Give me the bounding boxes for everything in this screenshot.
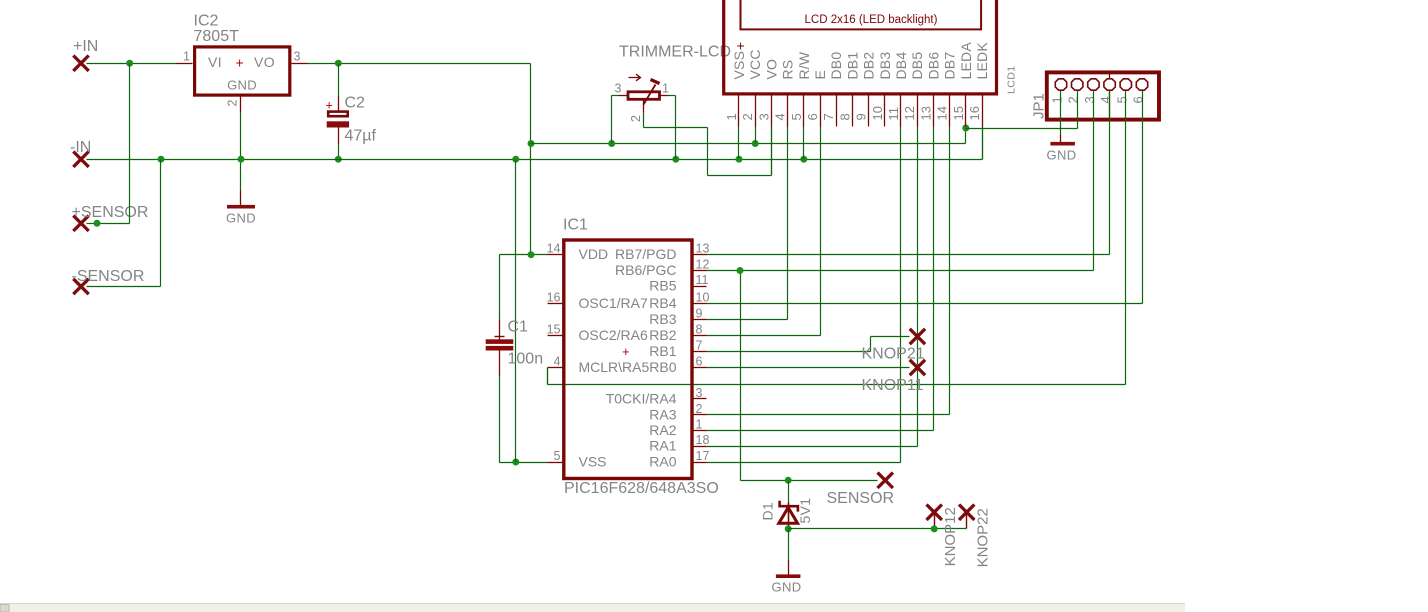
svg-text:TRIMMER-LCD: TRIMMER-LCD [619,44,731,61]
svg-text:5: 5 [554,449,561,463]
connector pad SENSOR [878,473,893,488]
svg-text:10: 10 [870,106,885,120]
svg-text:15: 15 [951,106,966,120]
svg-text:DB4: DB4 [893,52,909,80]
junction D1 bottom [785,525,792,532]
svg-text:KNOP11: KNOP11 [862,377,924,394]
IC1 pin 6 RB0 [693,367,707,369]
LCD pin 8 DB1 [852,96,854,127]
IC1 pin 7 RB1 [693,351,707,353]
LCD pin 10 DB3 [884,96,886,127]
connector pad KNOP22 [959,505,974,520]
svg-text:RB0: RB0 [649,359,676,375]
svg-text:1: 1 [662,82,669,96]
connector pad -SENSOR [73,279,88,294]
svg-text:2: 2 [629,115,643,122]
svg-text:3: 3 [756,113,771,120]
IC1 pin 5 VSS [548,462,564,464]
junction VDD riser [528,251,535,258]
wire LCD VCC to +5V rail [755,127,757,144]
svg-text:2: 2 [740,113,755,120]
svg-text:DB1: DB1 [844,52,860,80]
junction RB6 row [737,267,744,274]
svg-text:+: + [622,344,630,359]
wire LCD VSS to GND rail [738,127,740,160]
LCD pin 9 DB2 [868,96,870,127]
LCD pin 13 DB6 [933,96,935,127]
LCD pin 7 DB0 [836,96,838,127]
svg-text:1: 1 [696,418,703,432]
svg-text:LCD 2x16 (LED backlight): LCD 2x16 (LED backlight) [805,14,938,26]
IC1 pin 9 RB3 [693,319,707,321]
junction trimmer pin3 [608,140,615,147]
wire +5V riser x531 [530,64,532,255]
svg-text:SENSOR: SENSOR [827,490,895,507]
wire D1 to ground [788,529,790,561]
wire JP1 pin6 to RB4 [1142,122,1144,304]
svg-text:DB2: DB2 [861,52,877,80]
LCD pin 16 LEDK [982,96,984,127]
junction -SENSOR riser [158,156,165,163]
svg-text:4: 4 [773,113,788,120]
svg-text:DB7: DB7 [942,52,958,80]
svg-text:6: 6 [805,113,820,120]
ground GND under IC2 [227,205,255,209]
wire LCD DB4 to RA0 [900,127,902,463]
svg-text:2: 2 [696,402,703,416]
svg-text:7: 7 [821,113,836,120]
wire trimmer pin1 to GND [660,95,669,97]
scrollbar band [0,604,1185,612]
trimmer R TRIMMER-LCD body [628,92,660,100]
svg-text:KNOP12: KNOP12 [942,507,959,566]
connector JP1 outline [1047,72,1159,119]
IC U1 PIC16F628 outline [564,240,692,479]
JP1 pin1 to ground [1060,91,1062,135]
LCD pin 12 DB5 [917,96,919,127]
wire LCD VO down [771,127,773,176]
svg-text:R/W: R/W [796,51,812,79]
wire LEDA node to JP1 pin2 [966,128,1078,130]
svg-text:RA0: RA0 [649,454,676,470]
svg-text:2: 2 [226,100,240,107]
svg-text:T0CKI/RA4: T0CKI/RA4 [606,391,677,407]
svg-text:13: 13 [696,242,710,256]
svg-text:GND: GND [772,580,802,595]
svg-text:12: 12 [902,106,917,120]
JP1 pad 6 [1136,79,1147,90]
svg-text:+IN: +IN [73,38,98,55]
connector pad +IN [73,56,88,71]
zener diode D1 5V1 [788,481,790,503]
wire JP1 pin3 to RB6 [1093,122,1095,271]
wire -SENSOR [87,286,161,288]
svg-text:16: 16 [547,291,561,305]
svg-text:JP1: JP1 [1031,93,1048,119]
svg-text:4: 4 [1098,96,1113,103]
svg-text:-IN: -IN [70,139,91,156]
wire JP1 pin5 to MCLR [1125,122,1127,385]
ground GND under D1 [776,574,801,578]
svg-text:3: 3 [294,50,301,64]
LCD pin 1 VSS [738,96,740,127]
LCD pin 2 VCC [755,96,757,127]
junction LEDA/JP1-2 [962,125,969,132]
IC1 pin 2 RA3 [693,414,707,416]
svg-text:IC2: IC2 [194,12,219,29]
junction LCD VSS [736,156,743,163]
junction VSS gnd riser [512,459,519,466]
ground GND at JP1 [1050,142,1075,146]
IC1 pin 10 RB4 [693,303,707,305]
svg-text:11: 11 [696,273,709,287]
svg-text:RS: RS [780,60,796,80]
wire LCD DB7 to RA3 [949,127,951,415]
svg-text:RA3: RA3 [649,407,676,423]
svg-text:RB3: RB3 [649,311,676,327]
LCD pin 11 DB4 [900,96,902,127]
svg-text:VO: VO [763,59,779,80]
IC1 pin 4 MCLR\RA5 [548,367,564,369]
svg-text:RB7/PGD: RB7/PGD [615,246,676,262]
junction IC2 gnd [238,156,245,163]
svg-text:14: 14 [547,242,561,256]
svg-text:9: 9 [696,307,703,321]
wire D1 to KNOP12/KNOP22 [789,528,967,530]
wire RB0 to KNOP11 [707,367,910,369]
LCD pin 15 LEDA [965,96,967,127]
connector pad -IN [73,152,88,167]
wire LCD R/W to GND rail [803,127,805,160]
svg-text:18: 18 [696,433,710,447]
svg-text:E: E [812,70,828,80]
wire GND riser x516 [515,160,517,463]
svg-text:VSS: VSS [579,454,607,470]
JP1 pad 3 [1088,79,1099,90]
junction LCD VCC [752,140,759,147]
svg-text:8: 8 [837,113,852,120]
junction LCD R/W [800,156,807,163]
svg-text:VI: VI [208,54,222,70]
wire IC2 pin2 to GND rail [240,97,242,113]
svg-text:+SENSOR: +SENSOR [72,204,149,221]
svg-text:DB6: DB6 [925,52,941,80]
svg-text:RA2: RA2 [649,422,676,438]
svg-text:5: 5 [1114,96,1129,103]
svg-text:VO: VO [254,54,275,70]
JP1 pin4 through line [1109,74,1111,122]
svg-text:47µf: 47µf [345,127,377,144]
wire GND rail [87,159,983,161]
junction KNOP12 tap [931,525,938,532]
LCD pin 3 VO [771,96,773,127]
svg-text:D1: D1 [760,502,776,521]
wire VSS row [500,462,548,464]
junction C2 top [335,60,342,67]
wire IC2 out [292,63,308,65]
LCD pin 6 E [820,96,822,127]
junction +5V rail tee [528,140,535,147]
svg-text:1: 1 [724,113,739,120]
wire trimmer pin2 to LCD VO [643,99,645,113]
wire LCD DB6 to RA2 [933,127,935,431]
junction +IN/+SENSOR [126,60,133,67]
svg-text:1: 1 [1050,96,1065,103]
svg-text:1: 1 [183,50,190,64]
svg-text:-SENSOR: -SENSOR [72,268,145,285]
svg-text:+: + [326,99,333,113]
svg-text:VSS: VSS [731,51,747,80]
svg-text:DB3: DB3 [877,52,893,80]
JP1 pad 1 [1055,79,1066,90]
svg-text:C2: C2 [345,94,366,111]
junction VSS riser [512,156,519,163]
svg-text:3: 3 [696,386,703,400]
svg-text:LCD1: LCD1 [1006,66,1018,94]
svg-text:7: 7 [696,339,703,353]
svg-text:RB5: RB5 [649,278,676,294]
svg-text:6: 6 [696,355,703,369]
svg-text:KNOP22: KNOP22 [975,508,992,567]
wire +SENSOR [87,223,97,225]
connector pad KNOP21 [910,329,925,344]
IC1 pin 8 RB2 [693,335,707,337]
wire MCLR loop [547,368,549,385]
svg-text:LEDA: LEDA [958,42,974,80]
trimmer wiper arrow [644,85,656,105]
connector pad KNOP11 [910,360,925,375]
svg-text:14: 14 [935,106,950,120]
junction +SENSOR stub [94,220,101,227]
IC1 pin 16 OSC1/RA7 [548,303,564,305]
svg-text:RB6/PGC: RB6/PGC [615,262,676,278]
svg-text:RB2: RB2 [649,327,676,343]
JP1 pad 5 [1120,79,1131,90]
svg-text:OSC2/RA6: OSC2/RA6 [579,327,648,343]
svg-text:9: 9 [854,113,869,120]
svg-text:8: 8 [696,323,703,337]
wire +IN to IC2 pin1 [87,63,177,65]
svg-text:15: 15 [547,323,561,337]
junction D1 top [785,477,792,484]
svg-text:DB5: DB5 [909,52,925,80]
IC1 pin 17 RA0 [693,462,707,464]
svg-text:10: 10 [696,291,710,305]
svg-text:LEDK: LEDK [974,42,990,80]
svg-text:C1: C1 [508,318,529,335]
svg-text:16: 16 [967,106,982,120]
svg-text:RB4: RB4 [649,295,676,311]
IC1 pin 1 RA2 [693,430,707,432]
trimmer adjust arrow [629,74,641,81]
svg-text:17: 17 [696,449,710,463]
wire LCD RS to RB3 [787,127,789,320]
svg-text:+: + [236,55,244,71]
LCD pin 5 R/W [803,96,805,127]
svg-text:VCC: VCC [747,49,763,79]
svg-text:12: 12 [696,258,710,272]
IC1 pin 15 OSC2/RA6 [548,335,564,337]
IC1 pin 12 RB6/PGC [693,270,707,272]
wire RB6 to SENSOR [740,271,742,481]
svg-text:IC1: IC1 [563,217,588,234]
svg-text:GND: GND [226,211,256,226]
LCD pin 14 DB7 [949,96,951,127]
wire LCD E to RB2 [820,127,822,336]
svg-text:13: 13 [918,106,933,120]
svg-text:2: 2 [1066,96,1081,103]
junction C2 bottom [335,156,342,163]
wire trimmer pin3 to +5V [619,95,629,97]
wire LCD DB5 to RA1 [917,127,919,447]
svg-text:6: 6 [1131,96,1146,103]
capacitor C1 100n [499,255,501,320]
svg-text:PIC16F628/648A3SO: PIC16F628/648A3SO [564,480,719,497]
connector pad KNOP12 [927,505,942,520]
svg-text:OSC1/RA7: OSC1/RA7 [579,295,648,311]
svg-text:GND: GND [1047,148,1077,163]
svg-text:7805T: 7805T [194,28,240,45]
svg-text:3: 3 [615,82,622,96]
LCD module LCD1 outline [724,0,997,94]
svg-text:MCLR\RA5: MCLR\RA5 [579,359,650,375]
IC1 pin 11 RB5 [693,286,707,288]
wire RB1 to KNOP21 [707,351,871,353]
wire JP1 pin4 to RB7 [1109,122,1111,255]
svg-text:GND: GND [227,78,257,93]
svg-text:5: 5 [789,113,804,120]
svg-text:VDD: VDD [579,246,609,262]
svg-text:5V1: 5V1 [797,498,813,524]
svg-text:4: 4 [554,355,561,369]
svg-text:RB1: RB1 [649,343,676,359]
connector pad +SENSOR [73,216,88,231]
wire VDD row [500,254,548,256]
svg-text:3: 3 [1082,96,1097,103]
svg-text:RA1: RA1 [649,438,676,454]
IC1 pin 14 VDD [548,254,564,256]
svg-text:DB0: DB0 [828,52,844,80]
JP1 pad 2 [1072,79,1083,90]
wire +5V rail [531,143,966,145]
junction trimmer pin1 [672,156,679,163]
svg-text:11: 11 [886,107,901,121]
wire LCD LEDK to GND rail end [982,127,984,160]
svg-text:100n: 100n [508,350,544,367]
IC1 pin 3 T0CKI/RA4 [693,398,707,400]
IC1 pin 18 RA1 [693,446,707,448]
JP1 pad 4 [1104,79,1115,90]
LCD pin 4 RS [787,96,789,127]
JP1 pin stubs [1077,91,1079,122]
svg-text:KNOP21: KNOP21 [862,345,925,362]
voltage regulator IC2 7805T [195,47,290,95]
IC1 pin 13 RB7/PGD [693,254,707,256]
capacitor C2 47µf [338,64,340,97]
